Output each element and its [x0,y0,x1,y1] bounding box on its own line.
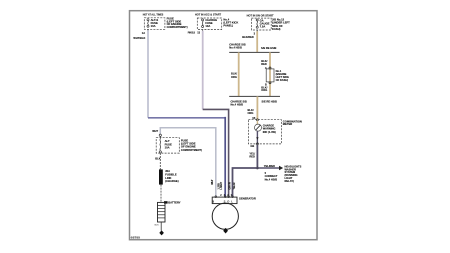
generator body circle [212,203,238,229]
fuse F4 location label [181,139,202,152]
border frame [130,11,318,240]
wire: F2 to corner (light) [202,31,204,110]
meter bottom pin GB [250,143,258,148]
svg-text:GENERATOR: GENERATOR [239,196,256,200]
svg-text:7.5A: 7.5A [260,25,266,29]
svg-text:BLK/RED: BLK/RED [242,35,254,39]
svg-text:LINK: LINK [165,176,171,180]
wire label BLK/RED above connector [261,59,267,66]
battery positive terminal [164,201,168,203]
svg-text:B: B [212,200,214,204]
svg-text:BLK: BLK [155,225,160,227]
fuse F3 value labels [260,18,270,28]
junction bus bar 2 [229,95,280,97]
wire: right branch through J/B (tan) [269,52,271,96]
svg-text:COMPARTMENT): COMPARTMENT) [181,148,202,152]
svg-text:COMPARTMENT): COMPARTMENT) [167,25,188,29]
fuse F4 box (dashed) [156,138,179,153]
svg-text:ORG: ORG [248,111,254,115]
pin 65 of meter [252,116,258,121]
svg-text:10A: 10A [165,145,170,149]
off-page arrow [279,166,283,170]
svg-text:YEL/RED: YEL/RED [264,164,275,168]
wire label YEL/RED on branch [264,164,275,168]
svg-text:HOT IN ACC & START: HOT IN ACC & START [195,13,221,17]
wire label WHT/BLK [133,36,145,40]
fuse F3 symbol [256,19,258,28]
svg-text:No.4 HS/B: No.4 HS/B [265,177,278,181]
branch pin 5 label [265,171,278,181]
rotated wire label YEL/RED [233,182,236,189]
wire label BLK below battery [155,225,160,227]
label S/B left of bar 1 [229,43,245,50]
wire: blue vertical to S pin [224,117,226,197]
svg-text:S/E RE HS/B: S/E RE HS/B [262,100,278,104]
svg-text:L/WHT: L/WHT [220,181,223,189]
svg-text:GB: GB [250,144,254,148]
rotated wire label L/WHT [220,181,223,189]
rotated wire label GRY [229,182,232,190]
ground G2 under battery [159,230,164,235]
generator pin bumps [215,196,234,198]
combination meter label [283,119,302,126]
svg-text:RED: RED [249,155,255,159]
svg-text:HOT AT ALL TIMES: HOT AT ALL TIMES [143,12,164,16]
label S/B right below bar 2 [262,100,278,104]
fuse F4 symbol [159,136,161,153]
generator label [239,196,256,200]
fuse F3 location label [272,18,290,31]
svg-text:RELAY): RELAY) [285,179,295,183]
svg-text:No.4 HS/B: No.4 HS/B [231,103,244,107]
battery BT1 [158,202,166,222]
rotated wire label BLK [218,183,221,190]
connector C1 pin B [265,82,271,87]
svg-text:DASH): DASH) [272,27,281,31]
svg-text:GRY/R: GRY/R [229,182,232,190]
pin 1A of F1 [142,29,148,35]
node junction J1 [256,167,259,170]
fusible link FL1 label [165,169,179,183]
wire: meter to junction (navy) [256,145,258,168]
figure number [131,237,141,240]
connector C1 pin A [265,66,271,70]
node: HOT IN ON OR START header [247,14,274,18]
svg-text:10A: 10A [151,24,156,28]
fuse F2 location label [223,17,238,27]
svg-text:RED: RED [261,62,267,66]
svg-text:IND (1.4W): IND (1.4W) [263,130,276,134]
svg-text:ORG: ORG [231,75,237,79]
svg-text:WHT: WHT [211,179,214,185]
fuse F2 value labels [205,18,217,28]
wire: bar 2 to meter (tan) [256,96,258,120]
ground G1 under generator [223,228,228,234]
label S/B right of bar 1 [261,46,277,50]
svg-text:1A: 1A [142,31,145,35]
svg-text:WHT/BLK: WHT/BLK [133,36,145,40]
generator terminal letters [212,200,233,204]
svg-text:(CHARGE): (CHARGE) [165,179,179,183]
fuse F1 box (dashed) [144,18,165,30]
wire label BLK/RED [242,35,254,39]
fuse F3 box (dashed) [251,18,271,30]
wire: white to generator B [160,128,216,197]
label S/B left below bar 2 [231,100,247,107]
charge warning lamp label [263,124,276,134]
fuse F1 value labels [151,18,159,28]
rotated wire label WHT [211,179,214,185]
svg-text:PNK/BLU: PNK/BLU [188,31,195,35]
junction bus bar 1 [229,51,279,53]
wire label PNK/BLU [188,31,195,35]
charge warning lamp [255,124,262,131]
svg-text:S/E RE HS/B: S/E RE HS/B [261,46,277,50]
pin 13 of F2 [197,30,203,35]
wire: F4 to fusible link [159,153,161,169]
wire: battery to ground [160,222,162,231]
svg-text:BATTERY: BATTERY [168,201,181,205]
fuse F1 location label [167,17,188,29]
svg-text:WHT: WHT [152,129,158,133]
fusible link FL1 [159,169,163,184]
svg-text:ORG: ORG [261,88,267,92]
wire: junction to generator L (navy) [233,168,258,197]
wire label WHT at fuse F4 [152,129,158,133]
fuse F4 top pin [159,134,161,136]
diode arrow inside meter [256,137,258,139]
generator pin numbers [220,194,232,197]
fuse F1 symbol [147,19,149,28]
wire label BLK/ORG to meter [248,108,254,115]
node: HOT AT ALL TIMES header [143,12,164,16]
fuse F2 box (dashed) [197,18,221,30]
wire label BLK [155,157,160,161]
svg-text:YEL/R: YEL/R [233,182,236,189]
wire: fusible link to battery [160,185,162,203]
wire label YEL/RED [249,152,255,159]
combination meter box (dashed) [248,120,281,144]
fuse F4 value labels [165,139,172,149]
svg-text:68795: 68795 [131,237,141,240]
svg-text:30A: 30A [165,169,170,173]
wire label BLK/ORG below connector [261,86,267,93]
generator terminal box [212,197,237,204]
off-page destination label [285,164,302,183]
svg-text:PANEL): PANEL) [223,23,233,27]
svg-text:METER: METER [283,122,292,126]
wire: F3 to bus bar 1 (tan) [256,31,258,52]
svg-text:HOT IN ON OR START: HOT IN ON OR START [247,14,274,18]
svg-text:FUSIBLE: FUSIBLE [165,172,177,176]
pin 3 of F3 [254,30,258,35]
wire inside meter [256,121,258,125]
connector C1 body [266,69,274,82]
battery label [168,201,181,205]
wire: left branch through J/B (tan) [238,52,240,96]
wire: F1 to junction (white) [147,30,149,117]
wire label BLK/ORG left branch [231,72,237,79]
wire: purple to generator IG [203,109,229,196]
node: HOT IN ACC OR START header [195,13,221,17]
connector C1 location label [276,69,290,82]
fuse F2 symbol [202,19,204,28]
wire: lamp to pin (navy) [256,131,258,144]
svg-text:OF DASH): OF DASH) [276,78,289,82]
wire: blue horizontal to generator S [148,117,225,119]
svg-text:No.4 HS/B: No.4 HS/B [229,46,242,50]
wire: junction to arrow (navy) [257,167,279,169]
svg-text:10A: 10A [205,24,210,28]
